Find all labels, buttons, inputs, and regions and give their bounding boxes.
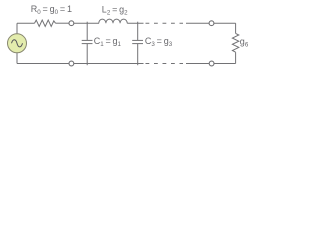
wire (dashed continuation, top) [146,22,184,24]
wire (bottom, source to dashes) [17,63,144,65]
capacitor C3 [132,22,143,65]
wire (dashed continuation, bottom) [146,63,184,65]
node (open terminal, top left) [69,21,74,26]
wire (top right solid) [186,22,236,24]
node (open terminal, bottom left) [69,61,74,66]
resistor R0 [35,20,56,26]
wire (top left, source to resistor) [17,22,35,24]
resistor g6 (load) [232,33,238,52]
node (open terminal, bottom right) [209,61,214,66]
node (open terminal, top right) [209,21,214,26]
wire (node to inductor, with C1 junction) [74,22,99,24]
wire (resistor to node) [56,22,70,24]
wire (bottom right solid) [186,63,236,65]
wire (right vertical, top) [235,23,237,33]
inductor L2 [99,19,127,23]
wire (inductor to C3 junction) [127,22,143,24]
capacitor C1 [82,22,93,65]
AC source V1 [8,23,27,63]
wire (right vertical, bottom) [235,52,237,63]
